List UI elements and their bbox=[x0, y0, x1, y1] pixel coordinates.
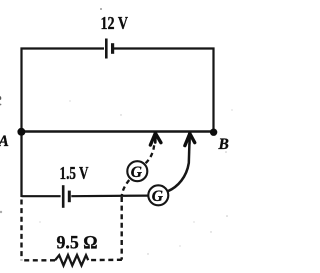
battery B2 1.5V long plate bbox=[62, 185, 65, 208]
node B junction dot bbox=[210, 129, 217, 136]
wire left vertical below A bbox=[20, 132, 22, 198]
wire dashed bottom right segment bbox=[88, 259, 122, 262]
galvanometer G1 circle (dashed position) bbox=[127, 161, 147, 181]
arrowhead of solid jockey bbox=[185, 134, 195, 146]
svg-text:G: G bbox=[131, 164, 143, 181]
wire dashed vertical right (junction down to resistor) bbox=[120, 197, 122, 260]
svg-text:A: A bbox=[0, 133, 9, 150]
scan noise speckle bbox=[39, 100, 232, 254]
arrowhead of dashed jockey bbox=[150, 133, 161, 145]
svg-text:12 V: 12 V bbox=[101, 13, 129, 33]
wire 1.5V branch right segment to G2 bbox=[71, 195, 148, 198]
svg-text:G: G bbox=[152, 188, 164, 205]
svg-text:1.5 V: 1.5 V bbox=[60, 163, 89, 183]
battery B2 1.5V short plate bbox=[68, 191, 71, 203]
lead dashed from G1 down to junction bbox=[122, 180, 129, 196]
jockey lead solid from G2 up to slide wire near B bbox=[168, 144, 190, 191]
wire dashed left vertical (below 1.5V branch) bbox=[20, 200, 22, 261]
galvanometer G2 circle (solid position) bbox=[148, 185, 168, 205]
battery B1 12V short plate bbox=[111, 43, 114, 54]
wire A-B slide wire bbox=[22, 130, 214, 132]
scan speck left edge bbox=[0, 96, 1, 100]
wire dashed bottom left segment bbox=[22, 259, 55, 261]
node A junction dot bbox=[17, 128, 25, 136]
wire top-left L (left vertical + top wire left half) bbox=[22, 49, 105, 132]
resistor R 9.5 ohm zigzag bbox=[55, 255, 88, 266]
svg-text:9.5 Ω: 9.5 Ω bbox=[57, 232, 98, 253]
jockey lead dashed from G1 up to slide wire bbox=[146, 143, 155, 164]
scan speck near 12V bbox=[100, 8, 102, 10]
scan speck left edge 2 bbox=[0, 104, 1, 106]
scan speck lower left edge bbox=[0, 211, 2, 213]
battery B1 12V long plate bbox=[105, 39, 108, 59]
svg-text:B: B bbox=[218, 136, 229, 153]
wire 1.5V branch left segment bbox=[22, 195, 61, 197]
wire top-right L (top wire right half + right vertical) bbox=[114, 49, 214, 132]
